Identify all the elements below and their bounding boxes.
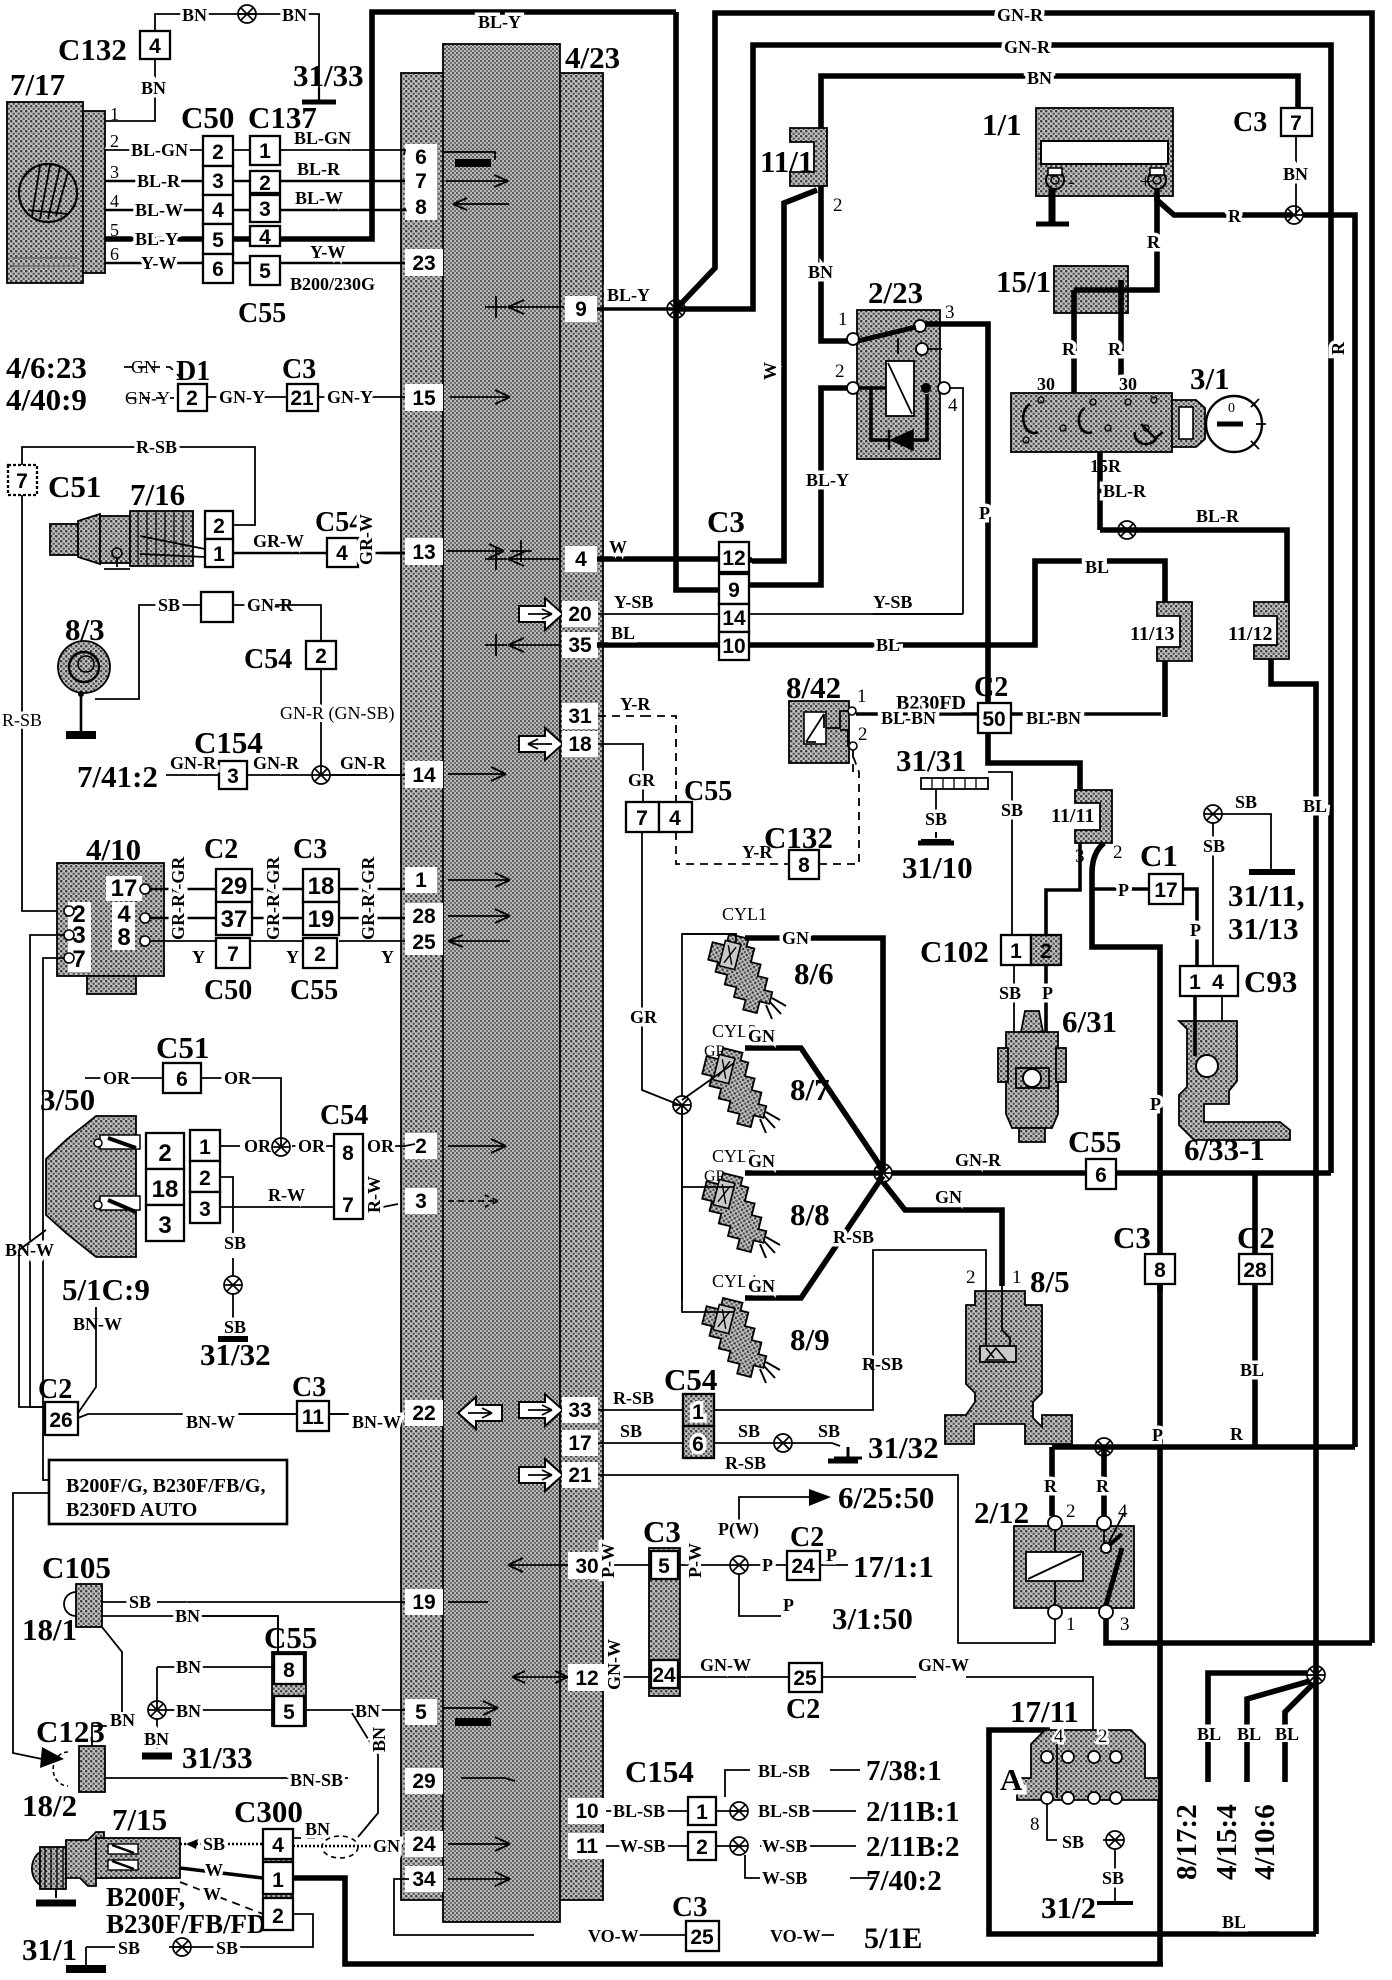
svg-text:C2: C2 (786, 1694, 820, 1725)
splice BN bottom (148, 1701, 166, 1719)
svg-text:P: P (826, 1545, 837, 1565)
splice BL-Y pin9 (597, 307, 676, 311)
svg-text:SB: SB (1203, 836, 1225, 856)
svg-text:6: 6 (110, 244, 119, 264)
svg-text:6: 6 (692, 1433, 704, 1456)
svg-text:17/1:1: 17/1:1 (853, 1549, 934, 1584)
wire GN CYL1 (745, 938, 883, 1173)
wire GN-Y to pin15 (207, 396, 405, 398)
wire R-SB pin21 to relay 2/12 (598, 1475, 1055, 1643)
svg-text:C55: C55 (264, 1620, 317, 1655)
svg-text:C3: C3 (1233, 107, 1267, 138)
svg-text:3: 3 (158, 1212, 171, 1239)
svg-text:-: - (1068, 172, 1074, 193)
svg-text:1: 1 (696, 1801, 708, 1824)
svg-text:3/1: 3/1 (1190, 361, 1230, 396)
svg-text:2: 2 (314, 943, 326, 966)
wire from 11/13 bottom to BL-BN row (1162, 661, 1168, 717)
svg-text:50: 50 (982, 708, 1005, 731)
svg-text:7: 7 (342, 1194, 354, 1217)
wire BL from 11/12 bottom down trunk (1271, 659, 1316, 1934)
wire GN-W from C3-24 to C2-25 (680, 1676, 789, 1678)
component 7/16 impulse sender (50, 477, 193, 569)
svg-text:BN: BN (141, 78, 166, 98)
svg-text:VO-W: VO-W (770, 1926, 821, 1946)
wire 4/10 pin17 Y-GR row to pin1 (150, 888, 405, 891)
svg-text:4/10:6: 4/10:6 (1249, 1804, 1281, 1880)
svg-text:R-SB: R-SB (862, 1354, 903, 1374)
svg-text:SB: SB (1062, 1832, 1084, 1852)
ignition switch 3/1 (1011, 361, 1266, 452)
svg-text:1: 1 (259, 140, 271, 163)
wire SB from comb right to C102-1 (988, 772, 1012, 935)
wire R-SB from C51-7 down to 4/10 pin2 (22, 495, 64, 911)
svg-text:P(W): P(W) (718, 1519, 759, 1540)
wire P down to 3/1:50 (739, 1574, 781, 1616)
svg-text:2/23: 2/23 (868, 275, 923, 310)
svg-text:1: 1 (213, 543, 225, 566)
svg-text:R-SB: R-SB (136, 437, 177, 457)
ECU internal arrow pin1 (448, 873, 510, 887)
svg-text:1: 1 (1066, 1614, 1076, 1635)
svg-text:GN-R: GN-R (1004, 37, 1051, 57)
svg-text:GN-R: GN-R (253, 753, 300, 773)
svg-text:GN: GN (935, 1187, 962, 1207)
svg-text:GN: GN (748, 1151, 775, 1171)
svg-text:7/40:2: 7/40:2 (866, 1865, 942, 1897)
svg-text:W: W (609, 537, 627, 557)
svg-text:P: P (1152, 1425, 1163, 1445)
wire BL branch 1 (1208, 1673, 1307, 1742)
svg-text:2: 2 (212, 141, 224, 164)
svg-text:35: 35 (568, 634, 592, 657)
svg-text:OR: OR (367, 1136, 395, 1156)
svg-text:5: 5 (658, 1555, 670, 1578)
connector C50 column boxes (203, 136, 233, 166)
ECU internal big arrow pin21 right (519, 1459, 563, 1491)
wire GN hatched from C300-4 to pin24 (293, 1845, 405, 1848)
svg-text:2: 2 (1098, 1726, 1108, 1747)
svg-text:GN: GN (748, 1026, 775, 1046)
relay 2/23 (835, 275, 958, 459)
connector C50 box 7 (216, 938, 250, 968)
svg-text:R: R (1108, 339, 1122, 359)
wire BL-SB row pin10 (606, 1810, 856, 1812)
svg-text:BN: BN (182, 5, 207, 25)
power stage A module (1000, 1726, 1159, 1835)
svg-text:4: 4 (669, 807, 681, 830)
svg-text:12: 12 (722, 547, 745, 570)
svg-text:28: 28 (412, 905, 436, 928)
wire GN CYL2 (745, 1048, 883, 1170)
svg-text:31/32: 31/32 (868, 1430, 939, 1465)
svg-text:R: R (1096, 1476, 1110, 1496)
svg-text:D1: D1 (176, 356, 210, 387)
svg-text:BN: BN (110, 1710, 135, 1730)
svg-text:7: 7 (1290, 112, 1302, 135)
wire SB from C102-1 down (1013, 965, 1015, 1032)
svg-text:R: R (1328, 341, 1348, 355)
svg-text:BL: BL (611, 623, 635, 643)
ECU internal big arrow pin18 (519, 728, 563, 760)
svg-text:BN: BN (369, 1727, 389, 1752)
wire GN-R row junction to C55-6 (892, 1170, 1331, 1176)
svg-text:4/10: 4/10 (86, 832, 141, 867)
wire BN from C3-7 to splice on R (1295, 136, 1297, 215)
svg-text:1: 1 (272, 1869, 284, 1892)
wire SB from splice to C93-4 (1204, 805, 1222, 823)
splice BN top (238, 5, 256, 23)
wire 8/5 pin2 to R-SB riser (873, 1250, 986, 1359)
svg-text:3: 3 (945, 302, 955, 323)
svg-text:30: 30 (575, 1555, 598, 1578)
svg-text:8/3: 8/3 (65, 612, 105, 647)
svg-text:BL-BN: BL-BN (881, 708, 936, 728)
component 7/15 lambda sond (32, 1802, 180, 1903)
wire BL-R row to 11/12 (1100, 530, 1287, 602)
ECU internal big arrow pin22 left (458, 1397, 502, 1429)
svg-text:P: P (1190, 920, 1201, 940)
wire OR from C51-6 (85, 1078, 281, 1148)
svg-text:29: 29 (412, 1770, 435, 1793)
svg-text:6: 6 (415, 146, 427, 169)
wire from variant box to arrow 18/2 (13, 1493, 49, 1759)
svg-text:P: P (1118, 880, 1129, 900)
svg-text:C300: C300 (234, 1794, 303, 1829)
svg-text:SB: SB (158, 595, 180, 615)
svg-text:B200F,: B200F, (106, 1882, 185, 1912)
svg-text:1: 1 (415, 869, 427, 892)
wire BN from splice to C55-5 (166, 1709, 274, 1711)
svg-text:31/32: 31/32 (200, 1337, 271, 1372)
connector C2 box 25 (789, 1663, 822, 1692)
svg-text:31/13: 31/13 (1228, 911, 1299, 946)
ECU pin boxes right (562, 296, 606, 1859)
svg-text:3: 3 (259, 198, 271, 221)
svg-text:B230F/FB/FD: B230F/FB/FD (106, 1909, 267, 1939)
svg-text:2: 2 (186, 387, 198, 410)
splice OR (272, 1138, 290, 1156)
svg-text:8/17:2: 8/17:2 (1171, 1804, 1203, 1880)
junction GN x (874, 1164, 892, 1182)
svg-text:2: 2 (1066, 1501, 1076, 1522)
splice W-SB (730, 1837, 748, 1855)
svg-text:C3: C3 (672, 1891, 707, 1923)
svg-text:C3: C3 (1113, 1220, 1151, 1255)
wire P to C2-24 (748, 1564, 787, 1566)
svg-text:BN: BN (144, 1729, 169, 1749)
svg-text:2: 2 (315, 645, 327, 668)
svg-text:23: 23 (412, 252, 435, 275)
svg-text:6/33-1: 6/33-1 (1184, 1132, 1265, 1167)
svg-text:C2: C2 (204, 834, 238, 865)
svg-text:25: 25 (690, 1926, 714, 1949)
wire GN CYL4 (745, 1176, 883, 1298)
ECU internal arrow pin28 (448, 909, 510, 923)
ECU internal arrow pin14 (448, 767, 506, 781)
svg-text:1/1: 1/1 (982, 107, 1022, 142)
svg-text:SB: SB (203, 1834, 225, 1854)
svg-text:GN: GN (748, 1276, 775, 1296)
svg-text:SB: SB (620, 1421, 642, 1441)
svg-text:17: 17 (568, 1432, 591, 1455)
svg-text:2/11B:1: 2/11B:1 (866, 1796, 959, 1828)
connector C54 box 8/7 (334, 1134, 363, 1219)
wire GN-R trunk 2 (676, 45, 1331, 1173)
svg-text:C105: C105 (42, 1550, 111, 1585)
svg-text:28: 28 (1243, 1259, 1267, 1282)
wire heavy from C300-1 to bottom rail (293, 1878, 1163, 1964)
svg-text:GN-R: GN-R (997, 5, 1044, 25)
ECU internal arrow pin13 (446, 540, 532, 562)
svg-text:6/31: 6/31 (1062, 1004, 1117, 1039)
svg-text:4/23: 4/23 (565, 40, 620, 75)
7/16 pin boxes 2,1 (205, 511, 233, 539)
svg-text:OR: OR (103, 1068, 131, 1088)
svg-text:9: 9 (575, 298, 587, 321)
svg-text:W: W (203, 1884, 221, 1904)
svg-text:GN-R: GN-R (170, 753, 217, 773)
svg-text:2: 2 (966, 1267, 976, 1288)
heavy frame around 17/11 (989, 1730, 1203, 1934)
svg-text:1: 1 (838, 309, 848, 330)
svg-text:9: 9 (728, 579, 740, 602)
svg-text:2: 2 (199, 1167, 211, 1190)
wire VO-W row from pin34 (394, 1879, 834, 1935)
connector C3 box 11 (297, 1401, 329, 1431)
wire P-W pin30 to C3-5 (606, 1564, 651, 1566)
svg-text:6: 6 (1095, 1164, 1107, 1187)
connector C51 box 7 (8, 465, 37, 495)
svg-text:OR: OR (224, 1068, 252, 1088)
svg-text:18: 18 (308, 873, 335, 900)
variant box B200F/G B230F/FB/G B230FD AUTO (49, 1460, 287, 1524)
ECU internal big arrow pin20 (519, 598, 563, 630)
svg-text:R-W: R-W (268, 1185, 305, 1205)
svg-text:13: 13 (412, 541, 435, 564)
svg-text:4: 4 (1118, 1501, 1128, 1522)
svg-text:31/31: 31/31 (896, 743, 967, 778)
svg-text:6: 6 (176, 1068, 188, 1091)
svg-text:W: W (205, 1860, 223, 1880)
svg-text:W-SB: W-SB (762, 1868, 807, 1888)
wire BL-Y heavy pin5 to C50-5 to C137-4 then up (105, 236, 250, 242)
bracket 11/13 (1157, 602, 1192, 661)
svg-text:C2: C2 (974, 672, 1008, 703)
ECU internal arrow pin19 (448, 1601, 488, 1603)
wire W heavy from 7/15 to C300-1 (180, 1868, 263, 1878)
svg-text:BN: BN (176, 1657, 201, 1677)
svg-text:3: 3 (1075, 846, 1085, 867)
svg-text:2: 2 (272, 1905, 284, 1928)
ECU internal arrow pin5 (443, 1701, 498, 1715)
wire BN-SB row pin29 (105, 1778, 515, 1781)
svg-text:BN-SB: BN-SB (290, 1770, 343, 1790)
svg-text:BL-Y: BL-Y (135, 229, 178, 249)
svg-text:1: 1 (1010, 940, 1022, 963)
svg-text:C3: C3 (282, 354, 316, 385)
wire W from 11/1 down (752, 190, 817, 561)
wire P from C1-17 down to C93 (1183, 889, 1197, 966)
svg-text:BL-SB: BL-SB (758, 1801, 810, 1821)
svg-text:R-SB: R-SB (613, 1388, 654, 1408)
ECU internal arrow pin34 (448, 1872, 510, 1886)
svg-text:BL-Y: BL-Y (806, 470, 849, 490)
svg-text:BL: BL (1237, 1724, 1261, 1744)
wire R-SB from C54-1 to riser (714, 1359, 873, 1410)
wire W-SB 7/40:2 row (745, 1855, 875, 1878)
wire BN dashed from C300-4 (293, 1837, 323, 1839)
svg-text:BN: BN (808, 262, 833, 282)
svg-text:C123: C123 (36, 1714, 105, 1749)
svg-text:C51: C51 (48, 469, 101, 504)
wires R from 15/1 down to 3/1 (1074, 280, 1121, 393)
battery negative ground (1049, 189, 1056, 222)
svg-text:8: 8 (415, 196, 427, 219)
svg-text:33: 33 (568, 1399, 591, 1422)
svg-text:11/1: 11/1 (760, 144, 813, 179)
svg-text:BL-SB: BL-SB (613, 1801, 665, 1821)
svg-text:OR: OR (244, 1136, 272, 1156)
svg-text:8/5: 8/5 (1030, 1264, 1070, 1299)
ECU 4/23 back block (401, 73, 603, 1900)
svg-text:11: 11 (302, 1406, 325, 1429)
wire from C300-2 right down to SB splice row (249, 1914, 313, 1947)
svg-text:7/16: 7/16 (130, 477, 185, 512)
svg-text:R-SB: R-SB (2, 710, 42, 730)
svg-text:31/33: 31/33 (293, 58, 364, 93)
svg-text:4/40:9: 4/40:9 (6, 382, 87, 417)
svg-text:W: W (760, 362, 780, 380)
svg-text:25: 25 (412, 931, 436, 954)
wire BL-R row pin7 (105, 180, 405, 183)
svg-text:BN: BN (176, 1701, 201, 1721)
svg-text:4: 4 (1212, 971, 1224, 994)
svg-text:BL: BL (1240, 1360, 1264, 1380)
svg-text:BL-GN: BL-GN (294, 128, 351, 148)
svg-text:BN: BN (1283, 164, 1308, 184)
svg-text:10: 10 (722, 635, 745, 658)
component 4/10 distributor (57, 832, 164, 994)
svg-text:31/10: 31/10 (902, 850, 973, 885)
wire BL-SB 7/38:1 row (725, 1770, 860, 1797)
wire 4/10 pin7 down (30, 958, 64, 1480)
connector C3 boxes 18 19 (303, 869, 339, 902)
svg-text:17/11: 17/11 (1010, 1694, 1079, 1729)
svg-text:15/1: 15/1 (996, 264, 1051, 299)
wire P from 11/11 pin3 to C102-2 (1046, 843, 1080, 935)
3/50 connector col1 boxes 2 18 3 (146, 1133, 184, 1169)
svg-text:8/8: 8/8 (790, 1197, 830, 1232)
svg-text:R-SB: R-SB (833, 1227, 874, 1247)
svg-text:7: 7 (227, 943, 239, 966)
svg-text:GN-R: GN-R (955, 1150, 1002, 1170)
ECU internal arrow pin15 (450, 390, 510, 404)
wire GN CYL3 (745, 1170, 883, 1176)
svg-text:0: 0 (1228, 401, 1235, 416)
svg-text:2: 2 (835, 361, 845, 382)
battery 1/1 (982, 107, 1173, 196)
svg-text:8: 8 (1030, 1814, 1040, 1835)
svg-text:GN: GN (782, 928, 809, 948)
wire 4/10 pin4 GR-R row to pin28 (150, 917, 405, 920)
wire BL-Y vertical from top row to C3-9 (676, 12, 719, 590)
svg-text:P: P (762, 1555, 773, 1575)
splice GR injectors (673, 1096, 691, 1114)
svg-text:C51: C51 (156, 1030, 209, 1065)
svg-text:2: 2 (415, 1135, 427, 1158)
svg-text:17: 17 (111, 875, 138, 902)
svg-text:W-SB: W-SB (762, 1836, 807, 1856)
svg-text:BN-W: BN-W (186, 1412, 235, 1432)
svg-text:GN: GN (373, 1836, 400, 1856)
svg-text:22: 22 (412, 1402, 435, 1425)
connector C2 box 24 (787, 1551, 820, 1580)
svg-text:C132: C132 (58, 32, 127, 67)
svg-text:C3: C3 (643, 1514, 681, 1549)
wire BN from C132-4 top to splice to ground 31/33 (155, 14, 319, 88)
wire BN elbow to C55-8 (157, 1667, 274, 1710)
svg-text:SB: SB (216, 1938, 238, 1958)
wire GN-W from C2-25 to 17/11 pin2 (822, 1677, 1093, 1755)
svg-text:1: 1 (857, 686, 867, 707)
svg-text:11/11: 11/11 (1051, 805, 1094, 827)
wire GR-W row pin13 (233, 552, 405, 555)
svg-text:5: 5 (212, 229, 224, 252)
svg-text:19: 19 (412, 1591, 435, 1614)
svg-text:8/42: 8/42 (786, 670, 841, 705)
wire BL-BN row 8/42-1 to C2-50 (856, 712, 1161, 716)
svg-text:+: + (1140, 172, 1151, 193)
svg-text:24: 24 (412, 1833, 436, 1856)
wire BL branch 2 (1247, 1681, 1310, 1742)
svg-text:8: 8 (342, 1142, 354, 1165)
svg-text:BN: BN (305, 1819, 330, 1839)
svg-text:4/6:23: 4/6:23 (6, 350, 87, 385)
svg-text:31/33: 31/33 (182, 1740, 253, 1775)
svg-text:SB: SB (129, 1592, 151, 1612)
svg-text:BL: BL (876, 635, 900, 655)
svg-text:4: 4 (336, 542, 348, 565)
svg-text:5: 5 (259, 260, 271, 283)
connector C154 box 3 (219, 761, 247, 789)
ECU internal arrow pin25 (448, 935, 510, 947)
wire SB from 8/3 to box to GN-R to C54-2 (95, 605, 201, 699)
svg-text:SB: SB (925, 809, 947, 829)
svg-text:5/1E: 5/1E (864, 1922, 922, 1955)
svg-text:Y: Y (192, 947, 205, 967)
svg-text:A: A (1000, 1762, 1023, 1797)
svg-text:BL-W: BL-W (295, 188, 343, 208)
svg-text:BN: BN (282, 5, 307, 25)
ECU internal arrow pin3 (448, 1195, 498, 1207)
svg-text:4: 4 (575, 548, 587, 571)
connector C2 boxes 29 37 (216, 869, 252, 902)
wire BN from C123 up (92, 1712, 122, 1746)
svg-text:24: 24 (791, 1555, 815, 1578)
svg-text:GN-W: GN-W (604, 1639, 624, 1690)
svg-text:R-W: R-W (364, 1176, 384, 1213)
svg-text:2: 2 (696, 1836, 708, 1859)
svg-text:BL: BL (1085, 557, 1109, 577)
ECU internal arrow pin9 (485, 296, 564, 318)
svg-text:3: 3 (227, 765, 239, 788)
svg-text:BL-BN: BL-BN (1026, 708, 1081, 728)
svg-text:P-W: P-W (598, 1543, 618, 1578)
svg-text:8: 8 (283, 1659, 295, 1682)
inline connector box (unlabeled) (201, 592, 233, 622)
svg-text:C3: C3 (707, 504, 745, 539)
